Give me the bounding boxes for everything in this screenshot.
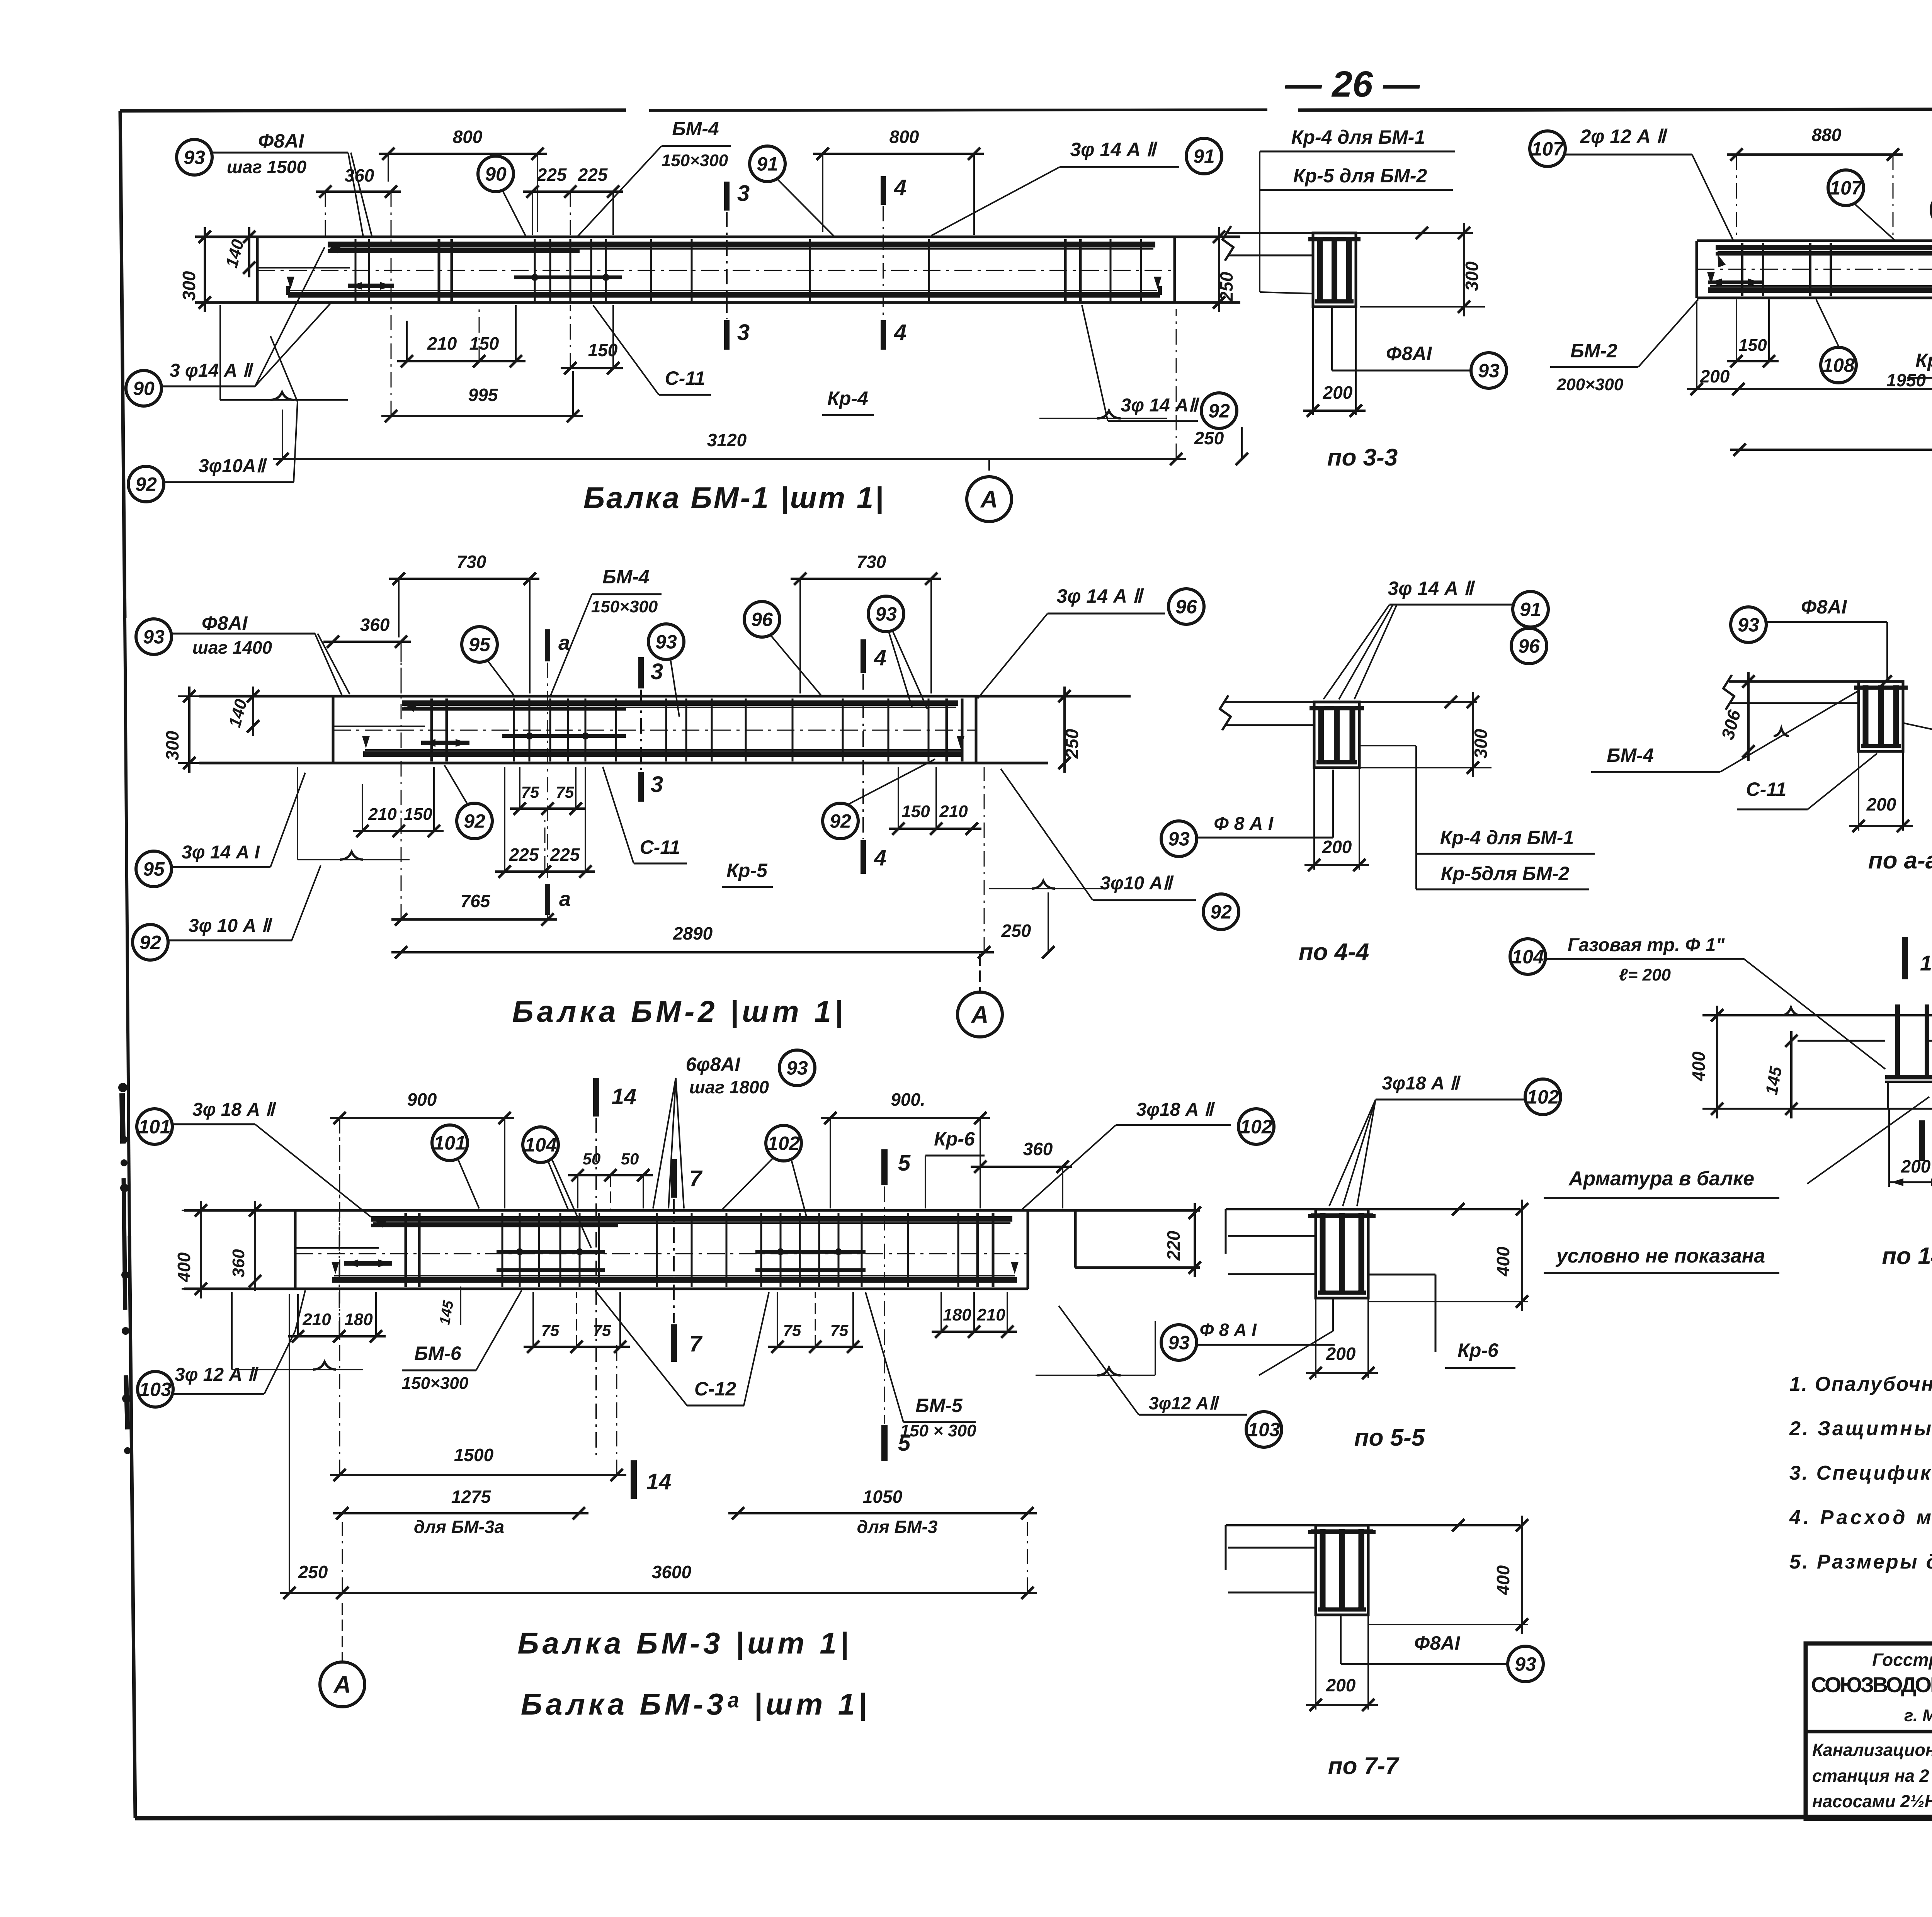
section 5-5 slab bbox=[1226, 1203, 1520, 1274]
dim 150 below mesh BM-1 bbox=[561, 305, 623, 374]
dim 300 left BM-2 bbox=[162, 687, 333, 773]
svg-text:Балка БМ-3ᵃ |шт 1|: Балка БМ-3ᵃ |шт 1| bbox=[521, 1687, 870, 1721]
svg-text:150: 150 bbox=[469, 333, 499, 353]
note uslovno ne pokazana bbox=[1544, 1245, 1779, 1273]
label C-11 BM-2 bbox=[603, 767, 687, 863]
svg-text:210: 210 bbox=[302, 1310, 331, 1329]
leader diagonal from step to labels BM-1 bbox=[255, 247, 325, 402]
dim 75 75 below right BM-3 bbox=[768, 1292, 863, 1353]
svg-text:102: 102 bbox=[1240, 1116, 1272, 1138]
svg-text:а: а bbox=[559, 887, 571, 911]
svg-text:101: 101 bbox=[434, 1132, 466, 1154]
svg-text:Φ 8 А Ι: Φ 8 А Ι bbox=[1199, 1320, 1257, 1340]
section 4-4 beam cut bbox=[1310, 702, 1364, 768]
svg-text:по 5-5: по 5-5 bbox=[1354, 1424, 1425, 1451]
svg-text:14: 14 bbox=[612, 1084, 637, 1109]
border frame left bbox=[120, 111, 135, 1818]
svg-text:Кр-7: Кр-7 bbox=[1915, 350, 1932, 371]
svg-text:880: 880 bbox=[1812, 125, 1842, 145]
svg-text:75: 75 bbox=[830, 1321, 849, 1339]
callout circle 104 mid BM-3 bbox=[523, 1127, 591, 1248]
svg-text:А: А bbox=[980, 486, 998, 513]
svg-text:250: 250 bbox=[1216, 272, 1236, 302]
svg-text:Φ 8 А Ι: Φ 8 А Ι bbox=[1214, 814, 1274, 834]
leader armatura to section 14-14 bbox=[1807, 1097, 1929, 1184]
svg-text:75: 75 bbox=[593, 1321, 611, 1339]
callout circle 107 mid BM-4 bbox=[1828, 170, 1895, 241]
section cut line a BM-2 bbox=[547, 663, 548, 883]
svg-text:2φ 12 А Ⅱ: 2φ 12 А Ⅱ bbox=[1580, 126, 1668, 147]
svg-text:90: 90 bbox=[133, 378, 155, 399]
title Balka BM-3a bbox=[521, 1687, 870, 1721]
svg-text:4: 4 bbox=[874, 845, 886, 870]
svg-text:Кр-6: Кр-6 bbox=[934, 1128, 975, 1150]
svg-text:БМ-2: БМ-2 bbox=[1570, 340, 1617, 362]
svg-text:300: 300 bbox=[1462, 261, 1482, 291]
svg-text:150: 150 bbox=[901, 802, 930, 821]
label Kp-5 dlya BM-2 bbox=[1260, 165, 1453, 190]
callout 3f18AII 102 section 5-5 bbox=[1329, 1073, 1561, 1206]
svg-text:210: 210 bbox=[976, 1305, 1005, 1324]
svg-text:для БМ-3: для БМ-3 bbox=[857, 1517, 938, 1537]
svg-text:шаг 1500: шаг 1500 bbox=[227, 157, 307, 177]
svg-text:Φ8АΙ: Φ8АΙ bbox=[1414, 1632, 1461, 1654]
svg-text:3φ 14 А Ⅱ: 3φ 14 А Ⅱ bbox=[1388, 578, 1475, 599]
dim 200 section 7-7 bbox=[1306, 1615, 1378, 1711]
dim 360 left BM-3 bbox=[229, 1201, 261, 1291]
support break right BM-3 bbox=[1036, 1321, 1155, 1375]
section 5-5 beam cut bbox=[1308, 1209, 1376, 1298]
dim 3120 BM-1 bbox=[273, 410, 1186, 465]
dim 1275 dlya BM-3a bbox=[333, 1487, 588, 1537]
callout circle 92 below BM-2 bbox=[444, 765, 492, 839]
callout circle 93 right BM-2 bbox=[868, 596, 927, 709]
dim 140 left BM-2 bbox=[225, 687, 259, 736]
callout F8AI 93 section 7-7 bbox=[1341, 1615, 1543, 1682]
svg-text:103: 103 bbox=[1248, 1419, 1280, 1441]
page number bbox=[1285, 64, 1420, 105]
section mark 7 top BM-3 bbox=[674, 1159, 703, 1198]
section mark 4 top BM-1 bbox=[883, 175, 906, 205]
dim row 200 1950 1550 200 BM-4 bbox=[1687, 301, 1932, 395]
svg-text:210: 210 bbox=[939, 802, 968, 821]
beam BM-2 ledge anchor bar bbox=[421, 739, 469, 747]
svg-text:3: 3 bbox=[651, 659, 663, 684]
svg-text:730: 730 bbox=[457, 552, 486, 572]
svg-text:225: 225 bbox=[550, 845, 580, 865]
svg-text:200: 200 bbox=[1323, 382, 1353, 403]
beam BM-1 axis dashed bbox=[257, 270, 1175, 271]
svg-text:90: 90 bbox=[485, 163, 507, 185]
callout 90 3f14AII left bbox=[126, 301, 332, 406]
svg-text:95: 95 bbox=[469, 634, 491, 656]
dim 400 section 5-5 bbox=[1368, 1200, 1528, 1311]
border frame bottom bbox=[135, 1817, 1932, 1818]
beam BM-1 top rebar bbox=[328, 245, 1155, 253]
svg-text:250: 250 bbox=[1194, 428, 1224, 448]
note 2 bbox=[1789, 1417, 1932, 1440]
svg-text:7: 7 bbox=[689, 1331, 703, 1356]
svg-text:101: 101 bbox=[138, 1116, 170, 1138]
svg-text:ℓ= 200: ℓ= 200 bbox=[1619, 965, 1671, 984]
callout 93 F8AI step1400 BM-2 bbox=[136, 612, 350, 695]
svg-text:75: 75 bbox=[541, 1321, 560, 1339]
callout circle 90 bbox=[478, 156, 526, 236]
svg-text:96: 96 bbox=[751, 609, 773, 631]
svg-text:1050: 1050 bbox=[863, 1487, 903, 1507]
svg-text:250: 250 bbox=[1001, 921, 1031, 941]
dim 180 210 below right BM-3 bbox=[932, 1292, 1017, 1338]
svg-text:103: 103 bbox=[139, 1379, 172, 1400]
svg-text:200×300: 200×300 bbox=[1556, 375, 1624, 394]
dim 75 75 below BM-2 bbox=[510, 767, 585, 815]
section mark 4 bottom BM-1 bbox=[883, 320, 906, 350]
svg-text:75: 75 bbox=[556, 783, 574, 801]
title block frame bbox=[1806, 1643, 1932, 1819]
svg-text:225: 225 bbox=[578, 165, 608, 185]
svg-text:С-11: С-11 bbox=[640, 836, 680, 858]
note 1 bbox=[1789, 1373, 1932, 1395]
label Kp-4 dlya BM-1 section 4-4 bbox=[1416, 827, 1595, 854]
svg-text:7: 7 bbox=[689, 1166, 703, 1191]
svg-text:102: 102 bbox=[1527, 1086, 1559, 1108]
axis circle A BM-1 bbox=[967, 459, 1012, 522]
dim 200 section 14-14 bbox=[1889, 1109, 1932, 1187]
svg-text:92: 92 bbox=[1208, 400, 1230, 422]
section mark 4 bottom BM-2 bbox=[863, 840, 886, 874]
svg-text:3φ10 АⅡ: 3φ10 АⅡ bbox=[1100, 873, 1174, 894]
callout circle 91 mid bbox=[750, 146, 835, 237]
dim 145 section 14-14 bbox=[1762, 1031, 1798, 1118]
svg-text:210: 210 bbox=[427, 333, 457, 353]
svg-text:по а-а: по а-а bbox=[1868, 847, 1932, 874]
section mark 4 top BM-2 bbox=[863, 639, 886, 673]
svg-text:107: 107 bbox=[1531, 138, 1565, 160]
svg-text:250: 250 bbox=[1062, 729, 1082, 759]
svg-text:станция на 2 агрегата с: станция на 2 агрегата с bbox=[1812, 1766, 1932, 1786]
svg-text:107: 107 bbox=[1830, 177, 1863, 199]
callout circle 101 mid BM-3 bbox=[432, 1125, 479, 1208]
svg-text:3φ 18 А Ⅱ: 3φ 18 А Ⅱ bbox=[192, 1100, 277, 1120]
callout 3f12AII 103 left BM-3 bbox=[138, 1290, 305, 1407]
beam BM-2 bottom rebar bbox=[362, 736, 964, 754]
axis circle A BM-3 bbox=[320, 1603, 365, 1707]
svg-text:3φ 14 А Ⅱ: 3φ 14 А Ⅱ bbox=[1070, 139, 1158, 160]
callout 107 2f12AII left BM-4 bbox=[1530, 126, 1733, 241]
callout 3f18AII 101 left BM-3 bbox=[137, 1100, 371, 1217]
svg-text:200: 200 bbox=[1901, 1156, 1931, 1176]
svg-text:по 7-7: по 7-7 bbox=[1328, 1753, 1400, 1779]
dim 300 section 3-3 bbox=[1360, 223, 1485, 316]
svg-text:1. Опалубочные чертежи: 1. Опалубочные чертежи см. листы АС-9; А… bbox=[1789, 1373, 1932, 1395]
leader from section 5-5 to C-12 bbox=[1259, 1298, 1333, 1375]
svg-text:г. Москва: г. Москва bbox=[1904, 1706, 1932, 1725]
svg-text:Кр-5для БМ-2: Кр-5для БМ-2 bbox=[1441, 863, 1570, 884]
label C-12 BM-3 bbox=[595, 1290, 769, 1405]
svg-text:93: 93 bbox=[1738, 614, 1759, 636]
svg-text:93: 93 bbox=[1515, 1654, 1536, 1675]
label Kp-4 BM-1 bbox=[822, 387, 874, 415]
section mark 3 top BM-2 bbox=[641, 657, 663, 688]
beam BM-2 C-11 mesh bar bbox=[502, 732, 626, 739]
callout 3f14AII 96 right BM-2 bbox=[978, 585, 1204, 698]
beam BM-4 outline bbox=[1697, 241, 1932, 298]
svg-text:150 × 300: 150 × 300 bbox=[900, 1421, 976, 1440]
svg-text:400: 400 bbox=[1493, 1246, 1513, 1276]
dim 1050 dlya BM-3 bbox=[728, 1487, 1037, 1537]
label BM-4 150x300 on BM-1 bbox=[577, 118, 731, 238]
svg-text:92: 92 bbox=[135, 474, 157, 495]
section cut line 3 BM-2 bbox=[640, 690, 642, 771]
svg-text:220: 220 bbox=[1163, 1230, 1184, 1261]
svg-text:6φ8АΙ: 6φ8АΙ bbox=[686, 1054, 741, 1075]
callout circle 108 left BM-4 bbox=[1816, 299, 1856, 383]
dim 400 section 14-14 bbox=[1689, 1006, 1932, 1118]
section 14-14 slab bbox=[1702, 1008, 1932, 1041]
svg-text:А: А bbox=[971, 1002, 989, 1028]
dim 250 vertical right BM-1 bbox=[1213, 227, 1236, 312]
section mark 14 top BM-3 bbox=[596, 1078, 636, 1117]
dim 880 left BM-4 bbox=[1727, 125, 1903, 241]
svg-text:Канализационная насосная: Канализационная насосная bbox=[1812, 1740, 1932, 1760]
callout 3f14AII 92 right BM-1 bbox=[1082, 305, 1237, 428]
label C-11 section a-a bbox=[1737, 753, 1877, 809]
label po 14-14 bbox=[1882, 1243, 1932, 1270]
svg-text:шаг 1400: шаг 1400 bbox=[192, 637, 272, 658]
svg-text:730: 730 bbox=[857, 552, 886, 572]
callout F8AI 93 section 3-3 bbox=[1332, 307, 1507, 388]
label BM-6 150x300 BM-3 bbox=[402, 1290, 522, 1393]
svg-text:5. Размеры длин балок: 5. Размеры длин балок даны по оси. bbox=[1789, 1551, 1932, 1573]
support break left BM-3 bbox=[232, 1292, 363, 1370]
svg-text:400: 400 bbox=[1493, 1565, 1513, 1595]
beam BM-3 stirrups bbox=[406, 1213, 993, 1287]
beam BM-4 top rebar bbox=[1716, 248, 1932, 267]
svg-text:А: А bbox=[333, 1672, 351, 1698]
callout 92 3f10AII left BM-2 bbox=[133, 865, 321, 960]
svg-text:Кр-4 для БМ-1: Кр-4 для БМ-1 bbox=[1440, 827, 1574, 848]
svg-text:Φ8АΙ: Φ8АΙ bbox=[1801, 596, 1847, 618]
svg-text:93: 93 bbox=[143, 626, 165, 648]
svg-text:3: 3 bbox=[651, 772, 663, 797]
svg-text:БМ-6: БМ-6 bbox=[414, 1343, 462, 1364]
svg-text:БМ-5: БМ-5 bbox=[915, 1395, 963, 1416]
dim 150 210 below right BM-2 bbox=[889, 767, 981, 835]
label C-11 BM-1 bbox=[593, 305, 711, 395]
dim 200 section 4-4 bbox=[1304, 768, 1369, 871]
svg-text:14: 14 bbox=[646, 1469, 672, 1494]
dim 225 225 below BM-2 bbox=[495, 767, 595, 878]
svg-text:92: 92 bbox=[1210, 901, 1232, 923]
svg-text:50: 50 bbox=[621, 1150, 639, 1168]
title block org bbox=[1811, 1650, 1932, 1725]
svg-text:СОЮЗВОДОКАНАЛПРОЕКТ: СОЮЗВОДОКАНАЛПРОЕКТ bbox=[1811, 1672, 1932, 1697]
svg-text:250: 250 bbox=[298, 1562, 328, 1582]
svg-text:102: 102 bbox=[767, 1133, 800, 1154]
svg-text:4: 4 bbox=[874, 645, 886, 670]
section mark 15 bottom 14-14 bbox=[1922, 1120, 1932, 1161]
dim 730 right BM-2 bbox=[791, 552, 941, 693]
svg-text:108: 108 bbox=[1822, 355, 1855, 376]
section 4-4 slab bbox=[1220, 695, 1477, 730]
svg-text:400: 400 bbox=[1689, 1051, 1709, 1081]
scan specks on left border bbox=[118, 1083, 131, 1454]
callout circle 93 mid BM-2 bbox=[648, 624, 684, 717]
svg-text:шаг 1800: шаг 1800 bbox=[689, 1077, 769, 1097]
dim 1500 BM-3 bbox=[330, 1128, 626, 1481]
svg-text:3. Спецификацию арматуры: 3. Спецификацию арматуры см. лист АС - 2… bbox=[1789, 1462, 1932, 1484]
support break right BM-1 bbox=[1039, 411, 1167, 418]
callout 95 3f14AI left BM-2 bbox=[136, 773, 305, 887]
dim 210 150 below left BM-1 bbox=[397, 305, 526, 367]
beam BM-2 axis dashed bbox=[333, 730, 976, 731]
label Kp-5 BM-2 bbox=[722, 860, 773, 887]
callout 3f12AII 103 right BM-3 bbox=[1059, 1306, 1282, 1447]
note armatura v balke bbox=[1544, 1168, 1779, 1198]
svg-text:210: 210 bbox=[368, 805, 397, 824]
callout circle 95 mid BM-2 bbox=[462, 627, 514, 695]
callout 93 F8AI right BM-3 bbox=[1161, 1320, 1335, 1360]
svg-text:насосами 2½НФ. или 4НФ: насосами 2½НФ. или 4НФ bbox=[1812, 1791, 1932, 1811]
svg-text:3φ 14 А Ⅱ: 3φ 14 А Ⅱ bbox=[1057, 585, 1144, 607]
beam BM-3 outline bbox=[184, 1210, 1200, 1289]
section a-a beam cut bbox=[1854, 681, 1908, 751]
svg-text:Госстрой СССР: Госстрой СССР bbox=[1872, 1650, 1932, 1670]
section cut line 14 BM-3 bbox=[595, 1118, 597, 1460]
svg-text:900.: 900. bbox=[891, 1089, 925, 1110]
svg-text:360: 360 bbox=[360, 615, 390, 635]
svg-text:по 14-14: по 14-14 bbox=[1882, 1243, 1932, 1270]
svg-text:4: 4 bbox=[894, 320, 906, 345]
dim 400 left BM-3 bbox=[174, 1201, 295, 1298]
svg-text:Балка БМ-2 |шт 1|: Балка БМ-2 |шт 1| bbox=[512, 994, 846, 1028]
beam BM-4 end anchors bbox=[1708, 279, 1932, 286]
leader Kp labels to section bbox=[1260, 151, 1314, 294]
beam BM-4 axis dashed bbox=[1697, 269, 1932, 270]
section a-a slab bbox=[1723, 675, 1903, 710]
leader Kp labels to section 4-4 bbox=[1360, 746, 1416, 889]
dim 75 75 below left BM-3 bbox=[524, 1292, 630, 1353]
callout 3f14AII 91 96 section 4-4 bbox=[1323, 578, 1548, 699]
svg-text:93: 93 bbox=[655, 631, 677, 653]
section mark 7 bottom BM-3 bbox=[674, 1324, 703, 1362]
dim 50 50 top BM-3 bbox=[568, 1150, 653, 1208]
dim 900 left BM-3 bbox=[330, 1089, 514, 1208]
svg-text:5: 5 bbox=[898, 1431, 911, 1456]
label BM-5 150x300 BM-3 bbox=[866, 1292, 976, 1440]
svg-text:300: 300 bbox=[1471, 729, 1491, 758]
beam BM-3 bottom rebar bbox=[332, 1262, 1019, 1280]
svg-text:Кр-4: Кр-4 bbox=[827, 387, 868, 409]
callout circle 102 mid BM-3 bbox=[723, 1125, 808, 1221]
title block object lines bbox=[1812, 1740, 1932, 1811]
dim 250 vertical right BM-2 bbox=[1058, 687, 1082, 773]
beam BM-2 top rebar bbox=[402, 703, 958, 712]
dim 3500 BM-4 bbox=[1730, 420, 1932, 456]
dim 145 inside BM-3 bbox=[437, 1286, 461, 1326]
svg-text:75: 75 bbox=[783, 1321, 801, 1339]
beam BM-4 stirrups bbox=[1742, 243, 1932, 296]
label Kp-4 dlya BM-1 bbox=[1260, 126, 1455, 151]
section mark 5 bottom BM-3 bbox=[884, 1425, 911, 1461]
svg-text:180: 180 bbox=[943, 1305, 971, 1324]
svg-text:95: 95 bbox=[143, 858, 165, 880]
svg-text:2890: 2890 bbox=[673, 923, 713, 943]
svg-text:150×300: 150×300 bbox=[591, 597, 658, 616]
svg-text:200: 200 bbox=[1866, 794, 1896, 814]
dim 200 section 5-5 bbox=[1306, 1298, 1378, 1379]
svg-text:3600: 3600 bbox=[652, 1562, 692, 1582]
svg-text:93: 93 bbox=[786, 1057, 808, 1079]
dim 995 BM-1 bbox=[381, 240, 583, 422]
beam BM-2 outline bbox=[199, 696, 1131, 763]
callout F8AI 93 section 4-4 bbox=[1161, 770, 1333, 857]
dim 300 section 4-4 bbox=[1359, 692, 1492, 777]
dim 225 225 BM-1 bbox=[523, 165, 623, 235]
svg-text:150: 150 bbox=[404, 805, 432, 824]
svg-text:С-12: С-12 bbox=[694, 1378, 736, 1400]
dim 360 BM-1 bbox=[316, 165, 401, 237]
section mark 3 top BM-1 bbox=[727, 181, 750, 211]
svg-text:96: 96 bbox=[1518, 636, 1540, 657]
svg-text:1500: 1500 bbox=[454, 1445, 494, 1465]
beam BM-1 stirrups bbox=[355, 239, 1141, 301]
title Balka BM-1 bbox=[583, 481, 885, 515]
section 14-14 beam below bbox=[1888, 1082, 1932, 1109]
label po 3-3 bbox=[1327, 444, 1398, 471]
svg-text:91: 91 bbox=[757, 153, 778, 175]
dim 2890 BM-2 bbox=[391, 923, 994, 958]
svg-text:1275: 1275 bbox=[451, 1487, 492, 1507]
svg-text:900: 900 bbox=[407, 1089, 437, 1110]
note 3 bbox=[1789, 1462, 1932, 1484]
svg-text:Кр-5: Кр-5 bbox=[726, 860, 768, 881]
svg-text:условно не показана: условно не показана bbox=[1555, 1245, 1765, 1267]
svg-text:Φ8АΙ: Φ8АΙ bbox=[202, 612, 248, 634]
svg-text:200: 200 bbox=[1322, 837, 1352, 857]
title Balka BM-2 bbox=[512, 994, 846, 1028]
svg-text:200: 200 bbox=[1326, 1675, 1356, 1695]
callout circle 92 right BM-2 bbox=[823, 759, 935, 839]
svg-text:3φ18 А Ⅱ: 3φ18 А Ⅱ bbox=[1382, 1073, 1461, 1094]
dim 800 right BM-1 bbox=[813, 127, 984, 235]
svg-text:3φ 12 А Ⅱ: 3φ 12 А Ⅱ bbox=[175, 1365, 259, 1385]
svg-text:5: 5 bbox=[898, 1151, 911, 1176]
label BM-2 200x300 left BM-4 bbox=[1550, 299, 1698, 394]
svg-text:50: 50 bbox=[583, 1150, 601, 1168]
section 14-14 pipe walls bbox=[1885, 1004, 1932, 1082]
label po 4-4 bbox=[1299, 939, 1369, 965]
dim 250 right BM-2 bbox=[984, 767, 1054, 958]
callout 109 F8AI shag1700 BM-4 bbox=[1931, 188, 1932, 241]
label BM-4 leader section a-a bbox=[1591, 691, 1859, 772]
svg-text:150×300: 150×300 bbox=[662, 151, 728, 170]
svg-text:Φ8АΙ: Φ8АΙ bbox=[258, 130, 304, 152]
svg-text:300: 300 bbox=[162, 731, 182, 760]
section mark 3 bottom BM-2 bbox=[641, 772, 663, 802]
svg-text:360: 360 bbox=[1023, 1139, 1053, 1159]
svg-text:300: 300 bbox=[179, 271, 199, 301]
svg-text:— 26 —: — 26 — bbox=[1285, 64, 1420, 105]
svg-text:360: 360 bbox=[345, 165, 374, 185]
dim 3600 BM-3 bbox=[333, 1522, 1037, 1599]
svg-text:15: 15 bbox=[1920, 951, 1932, 975]
support break right BM-2 bbox=[989, 881, 1105, 889]
callout 92 3f10AII left bbox=[128, 402, 298, 502]
svg-text:3φ10АⅡ: 3φ10АⅡ bbox=[199, 456, 267, 476]
section mark 15 top 14-14 bbox=[1905, 937, 1932, 979]
svg-text:93: 93 bbox=[875, 603, 897, 625]
